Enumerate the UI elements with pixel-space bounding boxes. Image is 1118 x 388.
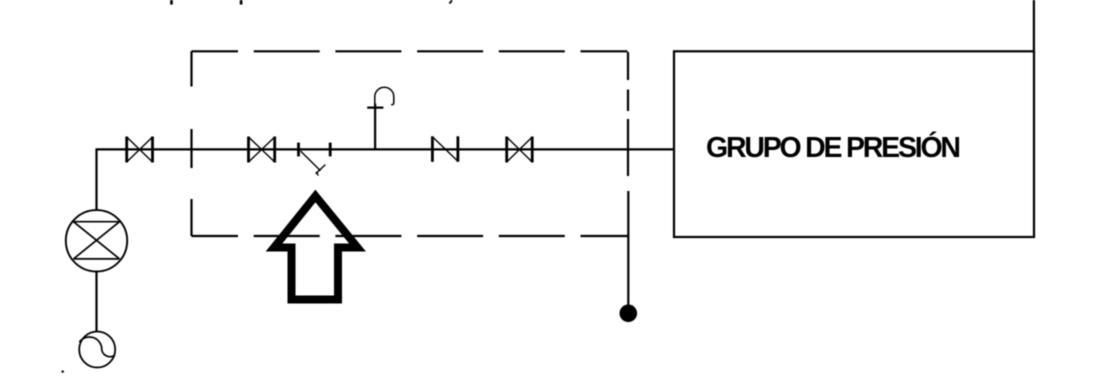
test cock T1 (tick and curl) xyxy=(367,87,394,107)
valve V1 (gate valve) xyxy=(127,137,153,163)
water meter M1 (circle with hourglass) xyxy=(66,210,127,271)
wire meter to supply xyxy=(95,272,97,332)
valve V4 (gate valve) xyxy=(507,137,533,163)
box GRUPO DE PRESION xyxy=(674,51,1034,237)
dashed enclosure left edge xyxy=(190,51,192,236)
riser wire to top edge xyxy=(1033,0,1035,52)
check valve CV1 xyxy=(432,136,458,162)
dashed enclosure top edge xyxy=(192,50,628,52)
wire pipe down-left to meter xyxy=(95,148,97,210)
dashed enclosure right edge xyxy=(627,52,629,176)
svg-text:GRUPO DE PRESIÓN: GRUPO DE PRESIÓN xyxy=(706,132,961,164)
valve V2 (gate valve) xyxy=(249,137,275,163)
dashed enclosure bottom edge xyxy=(192,235,628,237)
sensor drop wire xyxy=(627,191,629,305)
cropped text comma xyxy=(449,0,451,3)
cropped text descender 1 xyxy=(170,0,173,5)
cropped text descender 2 xyxy=(240,0,243,5)
test cock branch wire xyxy=(374,104,376,150)
supply source S1 (circle with wave) xyxy=(79,332,115,368)
block arrow pointer xyxy=(274,196,358,300)
junction dot xyxy=(620,305,638,323)
drain valve V3 (union ticks with slash) xyxy=(299,143,331,176)
stray dot bottom-left xyxy=(62,371,64,373)
main pipe wire xyxy=(97,148,675,150)
